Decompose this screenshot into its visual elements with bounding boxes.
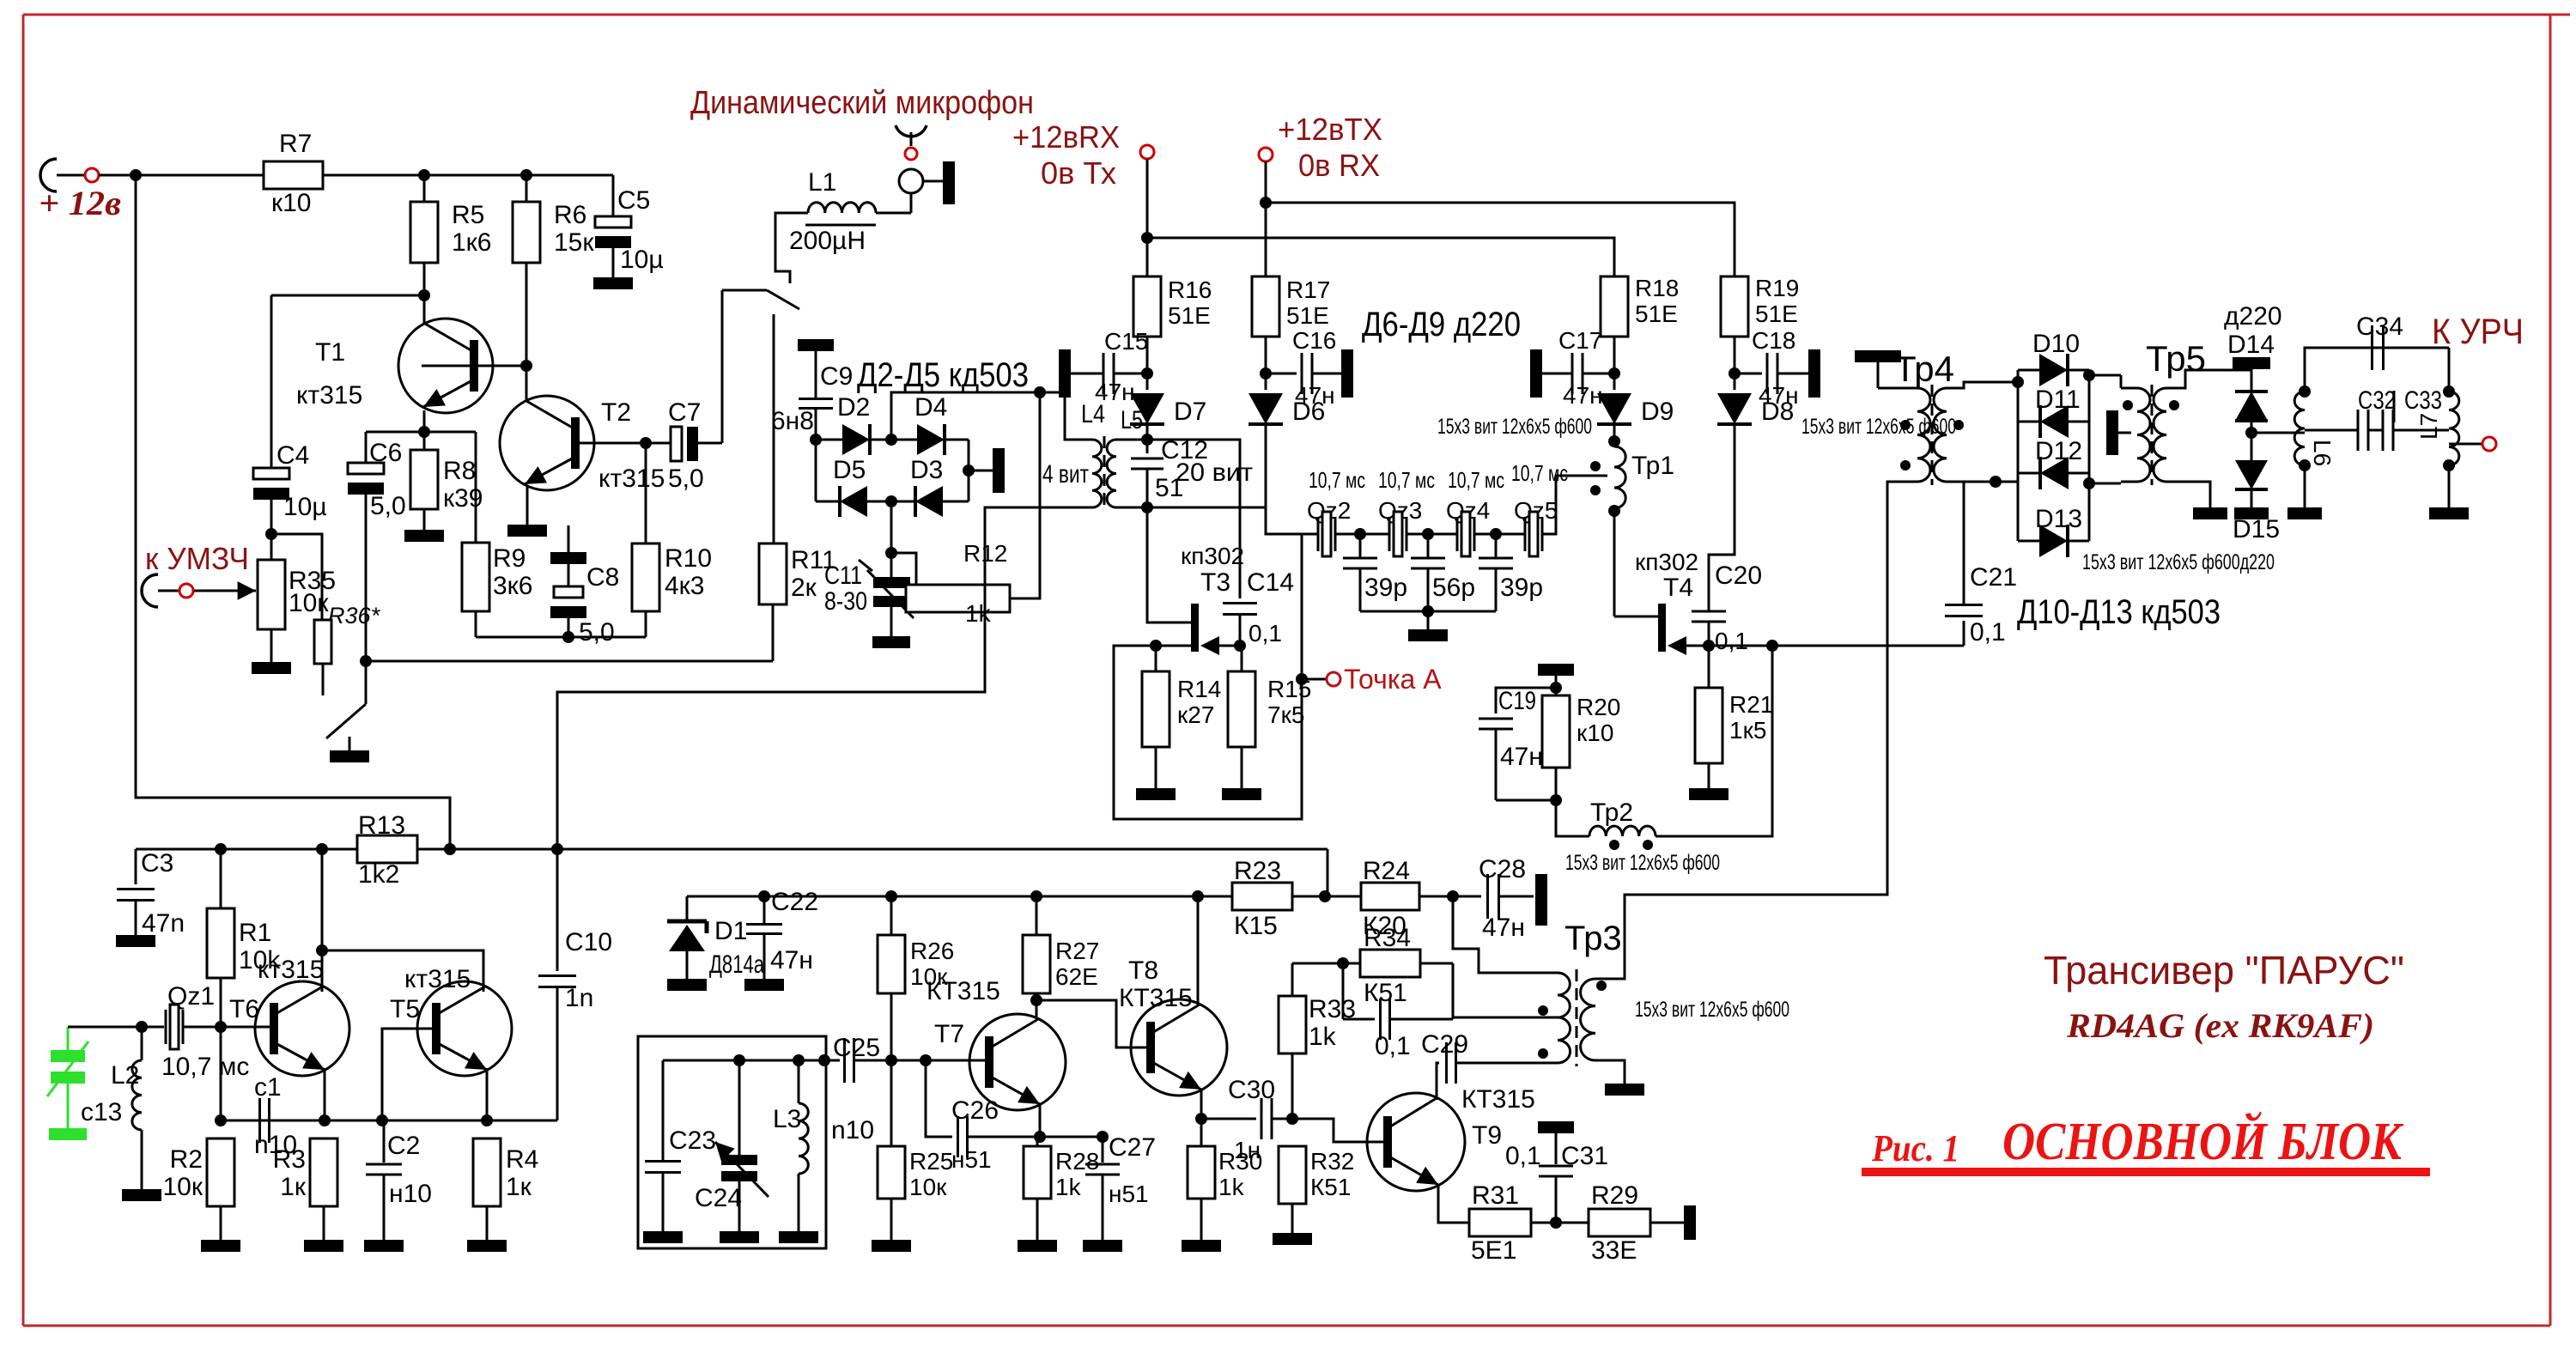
- node Tp2 left: [1550, 794, 1562, 806]
- svg-text:51Е: 51Е: [1635, 301, 1678, 327]
- svg-text:0,1: 0,1: [1249, 620, 1282, 647]
- wire R29 to bar: [1650, 1222, 1684, 1224]
- node C16/D6: [1260, 367, 1272, 379]
- wire L4 top: [1080, 439, 1092, 441]
- ground under Tp3: [1605, 1084, 1644, 1096]
- mic jack circle: [899, 169, 923, 193]
- wire bridge top to L4: [891, 392, 1080, 440]
- node C8 bottom: [562, 631, 574, 643]
- node T6 emitter: [319, 1114, 331, 1126]
- resistor R9: [462, 543, 489, 611]
- resistor R11: [759, 543, 787, 604]
- svg-text:C21: C21: [1970, 563, 2017, 592]
- wire R24 node to Tp3 primary top: [1453, 896, 1558, 973]
- svg-text:R31: R31: [1472, 1181, 1519, 1210]
- svg-text:Динамический микрофон: Динамический микрофон: [690, 85, 1034, 121]
- node R32/T9 base: [1286, 1113, 1298, 1125]
- wire L6 top to C34 row: [2305, 348, 2449, 392]
- svg-text:D5: D5: [833, 456, 866, 484]
- svg-text:D8: D8: [1761, 398, 1794, 426]
- switch TX/RX upper blade: [722, 289, 767, 292]
- svg-text:T4: T4: [1663, 574, 1693, 602]
- svg-text:R15: R15: [1267, 676, 1311, 702]
- svg-text:C23: C23: [669, 1126, 716, 1155]
- ground under L7: [2429, 507, 2469, 519]
- svg-text:Тр4: Тр4: [1894, 349, 1954, 389]
- svg-text:Тр5: Тр5: [2146, 338, 2206, 379]
- node Точка А: [1296, 673, 1308, 685]
- capacitor 39p left: [1359, 534, 1362, 558]
- svg-text:1н: 1н: [1234, 1137, 1261, 1163]
- node R26 top: [885, 890, 897, 902]
- resistor R21: [1708, 646, 1710, 688]
- svg-text:n10: n10: [831, 1116, 874, 1144]
- svg-text:C15: C15: [1104, 328, 1148, 355]
- svg-text:+ 12в: + 12в: [39, 184, 121, 222]
- svg-text:C27: C27: [1109, 1133, 1156, 1162]
- svg-text:D6: D6: [1292, 398, 1325, 426]
- ground under C5: [593, 277, 633, 289]
- svg-text:R20: R20: [1577, 694, 1620, 720]
- svg-text:кт315: кт315: [598, 464, 665, 493]
- wire T3 drain: [1147, 507, 1191, 622]
- svg-text:D4: D4: [914, 393, 947, 422]
- svg-text:C22: C22: [771, 888, 818, 916]
- wire to C4 branch: [271, 294, 424, 297]
- svg-text:15х3 вит 12х6х5 ф600: 15х3 вит 12х6х5 ф600: [1437, 415, 1592, 439]
- oscillator tank box: [638, 1036, 826, 1248]
- tank L7: [2449, 392, 2459, 465]
- wire R17 to node: [1265, 337, 1267, 390]
- resistor R2: [207, 1138, 234, 1206]
- node R12 riser top: [1034, 386, 1046, 398]
- wire Tp4 right top to diode ladder: [1947, 382, 2018, 388]
- node C11 branch: [885, 547, 897, 559]
- svg-text:10,7 мс: 10,7 мс: [1378, 467, 1435, 493]
- Tp4 polarity dots: [1900, 420, 1911, 430]
- node R27 top: [1030, 890, 1042, 902]
- diode D15: [2235, 460, 2268, 489]
- bridge left rail: [815, 440, 817, 501]
- wire TX rail to R19: [1266, 203, 1735, 276]
- resistor R27: [1036, 896, 1038, 935]
- wire to Qz1: [142, 1026, 164, 1029]
- wire emitter node to R9: [424, 431, 476, 434]
- transistor T2 kt315: [500, 396, 594, 490]
- ground under R32: [1273, 1233, 1312, 1245]
- resistor R3: [310, 1138, 337, 1206]
- wire T5 base riser: [382, 1029, 440, 1120]
- terminator bar right of bridge: [993, 448, 1005, 493]
- svg-text:47н: 47н: [1563, 382, 1603, 409]
- wire T4 drain: [1614, 616, 1658, 618]
- svg-text:T3: T3: [1200, 568, 1230, 597]
- wire Tp4 left bottom down long riser: [1625, 482, 1917, 973]
- node TX rail: [1260, 197, 1272, 209]
- microphone connector arc: [896, 125, 927, 137]
- node L5 top: [1141, 434, 1153, 446]
- svg-text:D14: D14: [2227, 331, 2275, 359]
- capacitor C31 with top bar: [1538, 1121, 1574, 1133]
- node T2 base: [640, 437, 652, 449]
- ground under L6: [2287, 507, 2322, 519]
- node D10 left: [2012, 376, 2024, 388]
- svg-text:2к: 2к: [791, 574, 817, 602]
- Tp4 top terminator bar: [1855, 350, 1901, 362]
- wire R27 to T7 collector: [1036, 993, 1038, 1018]
- wire R19 to node: [1734, 337, 1736, 390]
- node T5 base bottom: [376, 1114, 388, 1126]
- ground under R8: [404, 530, 444, 542]
- svg-text:R29: R29: [1591, 1181, 1638, 1210]
- wire R18 to node: [1613, 337, 1616, 390]
- wire T2 emitter to ground: [526, 485, 529, 525]
- wire switch to R11: [773, 314, 775, 543]
- ground under C2: [364, 1240, 404, 1252]
- wire T8 emitter down: [1200, 1089, 1203, 1119]
- svg-text:Тр3: Тр3: [1564, 920, 1622, 957]
- svg-text:R10: R10: [665, 544, 712, 573]
- resistor R17: [1252, 276, 1279, 337]
- svg-text:C28: C28: [1479, 855, 1526, 883]
- node C31/R29: [1550, 1217, 1562, 1229]
- svg-text:5,0: 5,0: [668, 464, 704, 493]
- svg-text:15х3 вит 12х6х5 ф600: 15х3 вит 12х6х5 ф600: [1565, 851, 1720, 875]
- svg-text:4 вит: 4 вит: [1042, 460, 1089, 489]
- node L6 bottom: [2299, 459, 2311, 471]
- svg-text:T5: T5: [390, 995, 420, 1023]
- node c1 left: [215, 1114, 227, 1126]
- resistor R7: [264, 161, 323, 189]
- resistor R31: [1469, 1209, 1531, 1236]
- svg-text:47н: 47н: [1095, 379, 1135, 405]
- svg-text:C11: C11: [824, 562, 862, 590]
- ground under R4: [467, 1240, 507, 1252]
- Tp5 polarity dots: [2123, 400, 2133, 410]
- svg-text:51Е: 51Е: [1168, 302, 1211, 329]
- wire R6 bottom to T2 collector: [526, 263, 528, 400]
- node bridge top: [885, 434, 897, 446]
- svg-text:D2: D2: [837, 393, 870, 422]
- svg-text:T9: T9: [1472, 1121, 1502, 1150]
- svg-text:Трансивер "ПАРУС": Трансивер "ПАРУС": [2044, 948, 2404, 993]
- svg-text:62Е: 62Е: [1055, 963, 1098, 990]
- svg-text:R33: R33: [1309, 995, 1356, 1023]
- svg-text:10µ: 10µ: [283, 493, 327, 521]
- node C20/R21: [1703, 640, 1715, 652]
- capacitor C8: [568, 525, 570, 552]
- svg-text:+12вRX: +12вRX: [1012, 119, 1120, 155]
- svg-text:R27: R27: [1055, 938, 1099, 964]
- ground under L2: [122, 1189, 161, 1201]
- svg-text:0,1: 0,1: [1970, 618, 2006, 647]
- wire jack down to L1: [910, 193, 913, 213]
- parallel cap 0,1 under R34: [1342, 963, 1345, 1019]
- ground under R21: [1689, 788, 1728, 800]
- svg-text:15х3 вит 12х6х5 ф600д220: 15х3 вит 12х6х5 ф600д220: [2082, 550, 2275, 574]
- svg-text:5Е1: 5Е1: [1471, 1236, 1516, 1265]
- svg-text:15х3 вит 12х6х5 ф600: 15х3 вит 12х6х5 ф600: [1635, 998, 1789, 1022]
- svg-text:C20: C20: [1715, 562, 1762, 590]
- node C28 left: [1447, 890, 1459, 902]
- wire D8 down to C20 branch: [1709, 424, 1735, 611]
- wire RX rail to R18: [1147, 238, 1614, 276]
- wire detector to L6 tank: [2251, 432, 2305, 434]
- node C18/D8: [1728, 367, 1741, 379]
- page border frame (red): [23, 14, 2570, 16]
- svg-text:T6: T6: [229, 995, 259, 1023]
- svg-text:R2: R2: [170, 1145, 203, 1174]
- bridge right rail: [968, 440, 970, 501]
- svg-text:51Е: 51Е: [1755, 301, 1798, 327]
- node R26/R25 base bus: [885, 1054, 897, 1066]
- node R34 left: [1337, 957, 1349, 969]
- svg-text:1к5: 1к5: [1729, 717, 1766, 744]
- svg-text:КТ315: КТ315: [1119, 984, 1193, 1012]
- wire C5 stub: [612, 175, 615, 216]
- node C14/R15: [1234, 640, 1246, 652]
- capacitor 39p right: [1495, 534, 1498, 558]
- svg-text:0,1: 0,1: [1715, 628, 1748, 654]
- node L3 top: [793, 1054, 805, 1066]
- resistor R13: [357, 835, 417, 863]
- svg-text:К51: К51: [1364, 979, 1407, 1007]
- svg-text:с13: с13: [81, 1098, 122, 1126]
- ground under R2: [201, 1240, 240, 1252]
- node R14: [1150, 640, 1162, 652]
- wire R8 to ground: [423, 509, 426, 530]
- svg-text:К УРЧ: К УРЧ: [2432, 311, 2524, 351]
- svg-text:кп302: кп302: [1635, 549, 1698, 575]
- wire base node down: [220, 1027, 222, 1120]
- tank top bus: [663, 1059, 840, 1062]
- svg-text:Д2-Д5 кд503: Д2-Д5 кд503: [857, 356, 1029, 394]
- resistor R24: [1361, 883, 1419, 910]
- supply line B: [687, 896, 1232, 898]
- svg-text:47н: 47н: [1482, 914, 1525, 942]
- supply line A: [136, 848, 357, 851]
- resistor R18: [1601, 276, 1628, 337]
- resistor R20: [1542, 695, 1570, 768]
- svg-text:1k2: 1k2: [358, 860, 399, 889]
- svg-text:L7: L7: [2415, 413, 2442, 440]
- diode D6: [1249, 393, 1283, 424]
- resistor R25: [890, 1060, 893, 1146]
- svg-text:3к6: 3к6: [493, 572, 533, 600]
- svg-text:T1: T1: [315, 338, 345, 367]
- svg-text:R3: R3: [273, 1145, 306, 1174]
- svg-text:+12вTX: +12вTX: [1278, 112, 1382, 147]
- svg-text:C17: C17: [1558, 327, 1602, 354]
- diode ladder left rail: [2017, 370, 2020, 541]
- svg-text:56р: 56р: [1432, 574, 1475, 602]
- ground under C3: [116, 935, 155, 947]
- resistor R26: [890, 896, 893, 935]
- resistor R23: [1232, 883, 1292, 910]
- wire R26 to base bus: [890, 993, 893, 1060]
- Tp3 polarity dots: [1596, 981, 1607, 991]
- svg-text:C29: C29: [1421, 1030, 1468, 1059]
- node T8 collector top: [1192, 890, 1204, 902]
- svg-text:R7: R7: [279, 130, 312, 158]
- svg-text:D3: D3: [910, 456, 943, 484]
- svg-text:0,1: 0,1: [1375, 1032, 1411, 1060]
- terminal circle К УРЧ: [2482, 437, 2496, 451]
- node bridge bottom: [885, 495, 897, 507]
- svg-text:10,7 мс: 10,7 мс: [1309, 467, 1365, 493]
- svg-text:к10: к10: [271, 189, 312, 217]
- wire Tp5 right bottom to ground: [2166, 482, 2210, 507]
- node R35 top: [265, 528, 277, 540]
- svg-text:47n: 47n: [142, 909, 185, 938]
- svg-text:1k: 1k: [1055, 1174, 1082, 1200]
- wire Tp4 right bottom to ladder: [1947, 481, 1996, 483]
- svg-text:C14: C14: [1247, 568, 1294, 597]
- node switch branch: [360, 655, 372, 667]
- wire C6 bottom down: [365, 495, 368, 661]
- node detector out: [2245, 427, 2257, 439]
- svg-text:н51: н51: [1109, 1181, 1149, 1207]
- wire L5 bottom: [1116, 507, 1147, 509]
- wire ladder to Tp5: [2089, 374, 2121, 377]
- svg-text:D12: D12: [2035, 437, 2082, 465]
- wire T4 gate from C20 node: [1686, 645, 1709, 647]
- wire R12 right riser: [1010, 392, 1040, 598]
- svg-text:R26: R26: [910, 938, 954, 964]
- wire +12vRX down: [1146, 159, 1149, 276]
- svg-text:ОСНОВНОЙ БЛОК: ОСНОВНОЙ БЛОК: [2002, 1112, 2404, 1171]
- wire T6 emitter down: [324, 1068, 326, 1120]
- node Tp1 bottom: [1608, 505, 1620, 517]
- resistor R19: [1721, 276, 1748, 337]
- node R1 top: [215, 843, 227, 855]
- svg-text:R17: R17: [1286, 276, 1330, 303]
- transistor T1 kt315: [398, 319, 493, 413]
- wire Tp5 right top to D14 node: [2166, 370, 2251, 388]
- wire Tp3 secondary top riser: [1595, 973, 1625, 979]
- Tp1 polarity dots: [1590, 461, 1601, 471]
- svg-text:к10: к10: [1577, 719, 1613, 746]
- wire emitter node to C6: [366, 431, 424, 434]
- ground under R3: [304, 1240, 343, 1252]
- resistor R4: [473, 1138, 501, 1206]
- wire bridge bottom to C11/R12: [890, 501, 893, 551]
- svg-text:R21: R21: [1729, 691, 1773, 718]
- wire T8 collector riser: [1197, 896, 1200, 1006]
- resistor R5: [410, 202, 438, 263]
- svg-text:5,0: 5,0: [579, 618, 615, 647]
- svg-text:к39: к39: [443, 484, 483, 513]
- capacitor C12: [1146, 440, 1149, 453]
- resistor R10: [632, 543, 659, 611]
- wire T1 base to R6 column: [422, 365, 526, 367]
- wire D6 down to filter feed: [1266, 424, 1302, 534]
- oscillator emitter bus: [221, 1120, 557, 1122]
- diode ladder right rail: [2088, 370, 2091, 541]
- svg-text:7к5: 7к5: [1267, 701, 1304, 728]
- resistor R14: [1155, 646, 1157, 671]
- svg-text:R25: R25: [909, 1148, 953, 1175]
- svg-text:10к: 10к: [163, 1173, 204, 1201]
- wire emitter to C27: [1040, 1136, 1103, 1138]
- wire Qz4-Qz5: [1474, 533, 1525, 536]
- wire to R12: [891, 553, 916, 585]
- svg-text:R34: R34: [1364, 924, 1411, 952]
- mixer output loop: [1147, 440, 1240, 507]
- svg-text:C5: C5: [617, 186, 650, 215]
- terminator bar after R29: [1684, 1205, 1696, 1240]
- svg-text:C2: C2: [387, 1132, 420, 1160]
- svg-text:1k: 1k: [1309, 1023, 1337, 1051]
- svg-text:Тр2: Тр2: [1590, 798, 1633, 827]
- wire L7 bottom to ground: [2448, 465, 2451, 507]
- node D1 top: [758, 890, 770, 902]
- node L5 bottom: [1141, 501, 1153, 513]
- switch TX/RX lower: [365, 661, 368, 704]
- svg-text:C4: C4: [276, 441, 309, 470]
- node Tp2 riser: [1766, 640, 1778, 652]
- ground under R35: [252, 662, 291, 674]
- svg-text:Д6-Д9 д220: Д6-Д9 д220: [1362, 306, 1521, 343]
- svg-text:5,0: 5,0: [370, 492, 406, 520]
- wire R9/C8/R10 bottom link: [475, 611, 477, 637]
- capacitor C4: [270, 467, 273, 470]
- transistor T7 kt315: [969, 1014, 1066, 1110]
- svg-text:R19: R19: [1755, 275, 1799, 301]
- svg-text:R23: R23: [1234, 857, 1281, 885]
- svg-text:кт315: кт315: [296, 381, 362, 410]
- node T5 emitter: [481, 1114, 493, 1126]
- node C24 top: [733, 1054, 745, 1066]
- resistor R12: [906, 585, 1010, 612]
- svg-text:0в Тх: 0в Тх: [1041, 155, 1116, 191]
- resistor R6: [513, 202, 540, 263]
- wire Qz1 to T6 base: [183, 1026, 275, 1029]
- node bridge input: [810, 434, 822, 446]
- potentiometer R35: [258, 560, 285, 629]
- wire C6-R11 link: [366, 660, 773, 663]
- wire Qz5 to Tp1 tap: [1542, 476, 1607, 534]
- svg-text:C8: C8: [586, 563, 619, 592]
- node T1 emitter: [418, 426, 430, 438]
- ground under C22: [744, 979, 784, 991]
- svg-text:R32: R32: [1310, 1148, 1354, 1175]
- Tp2 polarity dots: [1609, 840, 1619, 850]
- ground under Tp5: [2193, 507, 2227, 519]
- svg-text:R28: R28: [1055, 1148, 1099, 1175]
- resistor R32: [1279, 1146, 1306, 1204]
- node L6 top: [2299, 386, 2311, 398]
- svg-text:C33: C33: [2404, 386, 2442, 415]
- ground under D15: [2234, 507, 2269, 519]
- svg-text:C18: C18: [1752, 327, 1795, 354]
- svg-text:кт315: кт315: [404, 965, 471, 993]
- svg-text:D7: D7: [1174, 398, 1206, 426]
- resistor R29: [1589, 1209, 1650, 1236]
- svg-text:1k: 1k: [1218, 1174, 1245, 1200]
- svg-text:47н: 47н: [770, 946, 813, 974]
- svg-text:D1: D1: [714, 917, 747, 945]
- wire to R36: [271, 534, 322, 620]
- svg-text:D9: D9: [1641, 398, 1674, 426]
- svg-text:10,7 мс: 10,7 мс: [1448, 467, 1504, 493]
- ground under C24: [720, 1231, 759, 1243]
- svg-text:39р: 39р: [1364, 574, 1407, 602]
- wire base to T9: [1292, 1119, 1389, 1142]
- svg-text:1k: 1k: [965, 600, 992, 627]
- terminal circle mic: [905, 148, 917, 160]
- ground under C27: [1083, 1240, 1122, 1252]
